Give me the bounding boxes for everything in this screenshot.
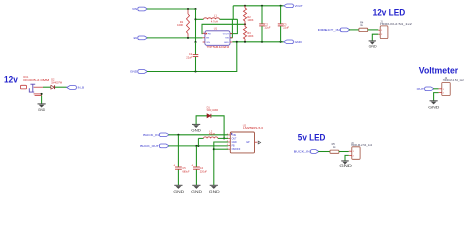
node IN_B port — [67, 86, 84, 90]
svg-text:OUT: OUT — [417, 87, 425, 91]
svg-text:GND: GND — [38, 108, 46, 112]
junction BUCKOUT/L2 — [197, 145, 199, 147]
svg-text:HDR-M-2.54_1x2: HDR-M-2.54_1x2 — [443, 79, 465, 82]
svg-text:100K: 100K — [247, 18, 253, 22]
wire J3 pin2 to gnd — [345, 155, 349, 161]
svg-text:GND: GND — [191, 189, 202, 194]
junction VIN/R4 — [187, 8, 189, 10]
op-amp U1 pins left — [203, 34, 205, 42]
ground J1 label — [369, 45, 377, 49]
svg-text:FB: FB — [232, 146, 235, 148]
svg-text:Voltmeter: Voltmeter — [419, 66, 459, 76]
wire jack to D2 — [43, 86, 51, 88]
regulator U2 pin names — [232, 135, 241, 151]
wire ONOFF — [214, 148, 229, 150]
svg-text:+: + — [191, 164, 193, 168]
connector DC1 plug — [21, 85, 27, 89]
wire R1 to J1 — [368, 29, 379, 31]
junction BUCKIN/C5 — [177, 134, 179, 136]
capacitor C4 plus — [191, 164, 193, 168]
svg-text:DIRECT_IN: DIRECT_IN — [318, 28, 340, 32]
connector J1 pin numbers — [381, 30, 383, 36]
svg-text:100K: 100K — [247, 34, 253, 38]
regulator U2 pin1 mark — [231, 133, 233, 136]
junction gndrail/C1ret — [236, 41, 238, 43]
junction D1/OUT — [223, 137, 225, 139]
svg-text:VOUT: VOUT — [295, 4, 303, 8]
wire D2 to IN_B — [55, 86, 67, 88]
resistor R2 — [243, 8, 246, 21]
wire J1 pin2 to gnd — [372, 34, 378, 41]
wire VOUT rail riser — [232, 6, 234, 19]
inductor L2 wire — [198, 138, 228, 146]
regulator U2 value — [243, 127, 264, 130]
wire VOUT top rail — [233, 5, 283, 7]
op-amp U1 value — [207, 45, 231, 49]
svg-text:EP: EP — [247, 142, 251, 144]
capacitor C5 plus — [173, 164, 175, 168]
resistor R3 — [243, 27, 246, 40]
svg-text:VIN: VIN — [206, 42, 210, 44]
inductor L1 — [204, 18, 220, 20]
wire EN to U1 — [147, 37, 203, 39]
ground U2 text — [209, 189, 220, 194]
svg-text:VIN: VIN — [232, 135, 236, 137]
connector J2 pin numbers — [443, 89, 445, 95]
svg-text:22uF: 22uF — [265, 25, 271, 29]
svg-text:BUCK_OUT: BUCK_OUT — [140, 144, 159, 148]
svg-text:EN: EN — [206, 38, 209, 40]
svg-text:3: 3 — [227, 141, 228, 143]
connector J3 body — [352, 147, 360, 160]
junction EN/R4 — [187, 37, 189, 39]
connector J1 pins — [378, 30, 380, 34]
resistor R5 body — [330, 150, 339, 153]
svg-text:22uF: 22uF — [186, 55, 192, 59]
inductor L1 wire — [196, 18, 238, 20]
wire gnd to D1 — [196, 116, 207, 125]
connector J1 body — [380, 26, 388, 39]
connector J3 pins — [349, 151, 352, 155]
svg-text:GND: GND — [130, 70, 137, 74]
capacitor C4 wires — [195, 146, 197, 185]
regulator U2 refdes — [243, 125, 247, 128]
ground C5 — [174, 185, 182, 189]
svg-text:1: 1 — [227, 134, 228, 136]
node BUCK_OUT port — [140, 144, 169, 148]
wire U2 GND down — [214, 142, 229, 185]
junction gndrail/C2 — [261, 41, 263, 43]
svg-text:100K: 100K — [177, 23, 183, 27]
wire R5 to J3 — [339, 151, 349, 153]
wire VOUT vertical — [230, 19, 237, 33]
junction FB/R2/R3 — [244, 23, 246, 25]
svg-text:1N4007W: 1N4007W — [51, 82, 62, 85]
svg-text:GND: GND — [369, 45, 377, 49]
svg-text:GND: GND — [191, 128, 201, 132]
svg-text:BUCK_IN: BUCK_IN — [143, 133, 159, 137]
resistor R3 leads — [244, 24, 246, 42]
svg-text:VOUT: VOUT — [223, 33, 230, 35]
wire port to R5 — [318, 151, 330, 153]
regulator U2 EP pin — [247, 141, 261, 144]
junction rail/R2 — [244, 5, 246, 7]
svg-text:+: + — [173, 164, 175, 168]
ground J3 — [341, 161, 349, 165]
ground 12v jack — [38, 104, 46, 108]
node GND port right — [284, 40, 302, 44]
resistor R1 label — [360, 22, 364, 28]
connector J3 pin numbers — [353, 151, 355, 157]
inductor L2 label — [209, 131, 215, 137]
junction jack gnd — [41, 93, 43, 95]
connector J2 refdes — [445, 77, 448, 80]
op-amp U1 pin1 mark — [203, 32, 207, 35]
wire jack to gnd — [41, 96, 43, 104]
connector J1 value — [380, 23, 413, 26]
svg-text:GND: GND — [173, 189, 184, 194]
resistor R4 — [186, 14, 189, 34]
svg-text:HDR-M-2.54_1x2: HDR-M-2.54_1x2 — [380, 23, 413, 26]
node DIRECT_IN port — [318, 28, 350, 32]
node VIN port — [132, 7, 147, 11]
connector J3 value — [351, 144, 373, 147]
svg-text:GND: GND — [428, 104, 439, 109]
title 5v LED — [298, 133, 326, 143]
wire BUCK_OUT to FB — [168, 145, 228, 147]
capacitor C3 — [278, 6, 284, 42]
title 12v LED — [373, 7, 406, 17]
capacitor C3 label — [283, 22, 289, 29]
svg-text:1: 1 — [203, 32, 204, 34]
regulator U2 pins — [228, 135, 230, 149]
capacitor C2 — [259, 6, 265, 42]
capacitor C5 wires — [177, 135, 179, 186]
inductor L1 label — [211, 14, 218, 24]
op-amp U1 refdes — [214, 26, 218, 30]
junction rail/C3 — [280, 5, 282, 7]
svg-text:5v LED: 5v LED — [298, 133, 326, 143]
ground D1 label — [191, 128, 201, 132]
svg-text:DC005-2.0MM: DC005-2.0MM — [23, 79, 49, 82]
junction GND/ONOFF — [213, 148, 215, 150]
wire VIN vertical — [195, 9, 197, 42]
ground J1 — [369, 41, 376, 45]
wire BUCK_IN to U2 — [168, 134, 228, 136]
wire SW vertical — [230, 19, 232, 38]
svg-text:220uF: 220uF — [200, 170, 208, 173]
node VOUT port — [284, 4, 303, 8]
resistor R4 label — [177, 20, 184, 27]
svg-text:HDR-M-2.54_1x2: HDR-M-2.54_1x2 — [351, 144, 373, 147]
wire J2 pin2 to gnd — [434, 93, 439, 101]
svg-text:GND: GND — [209, 189, 220, 194]
wire VIN to R4/U1 — [147, 8, 196, 10]
svg-text:4.7uH: 4.7uH — [211, 20, 218, 24]
op-amp U1 body — [205, 31, 230, 46]
wire D1 to OUT — [211, 116, 224, 139]
diode D2 label — [51, 79, 62, 85]
svg-text:EN: EN — [134, 36, 138, 40]
ground J2 label — [428, 104, 439, 109]
wire FB loop — [202, 24, 245, 33]
diode D2 — [51, 85, 55, 89]
node BUCK_IN port — [143, 133, 169, 137]
junction gndrail/R3 — [244, 41, 246, 43]
connector DC1 tip — [30, 84, 35, 92]
ground C4 label — [191, 189, 202, 194]
svg-text:33uH: 33uH — [209, 133, 215, 136]
capacitor C5 — [175, 167, 182, 169]
ground J2 — [430, 101, 438, 105]
svg-text:U1: U1 — [214, 26, 218, 30]
junction VIN corner — [194, 8, 196, 10]
ground 12v jack label — [38, 108, 46, 112]
connector J2 value — [443, 79, 465, 82]
inductor L2 — [204, 137, 218, 139]
svg-text:680uF: 680uF — [182, 170, 190, 173]
svg-text:22uF: 22uF — [283, 25, 289, 29]
connector J2 pins — [439, 89, 442, 93]
wire DIRECT_IN to R1 — [349, 29, 359, 31]
svg-text:GND: GND — [295, 40, 302, 44]
title Voltmeter — [419, 66, 459, 76]
ground D1 — [192, 124, 200, 128]
node GND port left — [130, 70, 148, 74]
svg-text:5: 5 — [227, 148, 228, 150]
connector DC1 pins — [34, 87, 43, 95]
svg-text:GND: GND — [224, 42, 229, 44]
connector J3 refdes — [351, 142, 354, 145]
svg-text:12v LED: 12v LED — [373, 7, 406, 17]
junction gndrail/C3 — [280, 41, 282, 43]
capacitor C1 gap wires — [195, 42, 197, 72]
capacitor C4 label — [200, 167, 208, 173]
capacitor C5 label — [182, 167, 190, 173]
ground C4 — [192, 185, 200, 189]
connector DC1 refdes — [23, 76, 49, 82]
junction rail/C2 — [261, 5, 263, 7]
diode D1 label — [207, 106, 219, 112]
junction GND/C1 — [194, 70, 196, 72]
svg-text:BUCK_IN: BUCK_IN — [294, 150, 310, 154]
resistor R1 body — [359, 28, 368, 31]
capacitor C4 — [193, 167, 200, 169]
wire OUT to J2 — [433, 88, 438, 90]
title 12v — [4, 75, 19, 85]
svg-text:2: 2 — [227, 137, 228, 139]
wire GND rail — [232, 41, 283, 43]
capacitor C1 label — [186, 52, 192, 59]
svg-text:IN_B: IN_B — [78, 86, 84, 90]
diode D1 — [207, 114, 211, 118]
node OUT port — [417, 87, 434, 91]
regulator U2 body — [230, 132, 254, 153]
regulator U2 pin numbers — [227, 134, 228, 150]
svg-text:TPS61023: TPS61023 — [207, 45, 231, 49]
wire GND left rail — [147, 42, 237, 72]
op-amp U1 pin names — [206, 33, 230, 43]
svg-text:4: 4 — [227, 144, 228, 146]
svg-text:LM2596S-5.0: LM2596S-5.0 — [243, 127, 264, 130]
svg-text:GND: GND — [232, 142, 237, 144]
svg-text:ON/OFF: ON/OFF — [232, 149, 241, 151]
svg-text:OUT: OUT — [232, 138, 237, 140]
junction BUCKOUT/C4 — [195, 145, 197, 147]
svg-text:GND: GND — [339, 163, 352, 168]
ground J3 label — [339, 163, 352, 168]
node BUCK_IN port 5v — [294, 150, 319, 154]
svg-text:12v: 12v — [4, 75, 19, 85]
node EN port — [134, 36, 148, 40]
svg-text:VIN: VIN — [132, 7, 137, 11]
resistor R3 label — [247, 31, 253, 38]
junction VIN/L1 — [194, 18, 196, 20]
op-amp U1 pins right — [230, 34, 232, 42]
ground U2 label2 — [210, 185, 218, 189]
connector DC1 sleeve — [29, 88, 34, 92]
ground C5 label — [173, 189, 184, 194]
capacitor C2 label — [265, 22, 271, 29]
junction VIN pin/C1 — [194, 41, 196, 43]
svg-text:SS34_C2480Z: SS34_C2480Z — [207, 109, 219, 112]
resistor R4 leads — [187, 10, 189, 38]
resistor R2 label — [247, 15, 253, 22]
connector J1 refdes — [380, 20, 383, 23]
connector J2 body — [442, 83, 450, 96]
resistor R5 label — [332, 143, 337, 149]
resistor R2 leads — [244, 6, 246, 25]
capacitor C1 — [193, 55, 199, 57]
